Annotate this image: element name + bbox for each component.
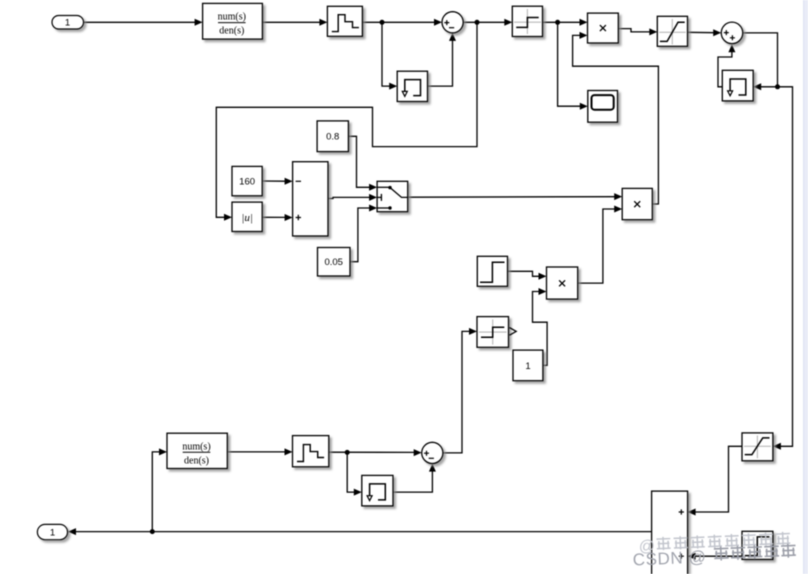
wire junction D to Saturation2 input [773, 87, 793, 450]
svg-text:160: 160 [239, 176, 255, 187]
svg-text:num(s): num(s) [218, 12, 246, 23]
wire TallSum output to Out1 [68, 528, 652, 535]
wire Constant 0.05 to Switch input3 [350, 205, 377, 262]
product Product2 [622, 188, 652, 219]
svg-text:num(s): num(s) [182, 441, 210, 452]
wire Switch to Product2 input1 [408, 193, 623, 200]
constant 1 [513, 350, 543, 381]
staircase block SC1 [327, 6, 362, 36]
wire Step2 to TallSum input2 [688, 553, 742, 560]
sum Sum3 [422, 442, 443, 463]
node junction F [345, 450, 350, 455]
constant 0.05 [318, 248, 351, 277]
wire DeadZone1 to Product1 [543, 19, 588, 26]
svg-text:den(s): den(s) [219, 26, 244, 37]
svg-text:den(s): den(s) [184, 455, 209, 466]
wire Product2 output up to Product1 input2 [573, 32, 659, 204]
wire junction F down to Memory3 [347, 452, 362, 495]
svg-text:0.8: 0.8 [326, 132, 339, 143]
wire Saturation2 to TallSum input1 [688, 446, 742, 515]
watermark juejin community (light) [638, 532, 790, 556]
wire Abs to SumRect plus [262, 214, 292, 221]
wire junction C down to Scope [558, 22, 588, 109]
wire Memory1 to Sum1 bottom [428, 33, 457, 86]
step source Step2 (mirrored) [742, 531, 773, 559]
right edge panel strip [803, 0, 808, 574]
svg-text:|u|: |u| [241, 212, 253, 224]
switch block Switch [377, 181, 408, 211]
sum TallSum (mirrored add) [652, 491, 688, 574]
watermark CSDN user (darker) [632, 543, 796, 569]
wire Saturation1 to Sum2 [688, 29, 722, 36]
wire Sum2 to Memory2 input [743, 33, 778, 90]
saturation block Saturation1 [657, 16, 687, 46]
transfer-function TF1 num(s)/den(s) [203, 3, 263, 39]
transfer-function TF2 num(s)/den(s) [167, 433, 227, 468]
wire Sum1 to DeadZone1 [463, 19, 512, 26]
wire TF1 to Staircase1 [262, 19, 327, 26]
svg-text:1: 1 [50, 528, 55, 539]
wire SumRect to Switch input2 [328, 194, 377, 201]
dead-zone block DeadZone1 [512, 6, 542, 36]
constant 0.8 [317, 121, 348, 152]
product Product1 [588, 13, 619, 43]
step source SignStep [477, 256, 507, 286]
constant 160 [232, 166, 262, 195]
wire Product3 to Product2 input2 [578, 206, 623, 284]
node junction D [775, 84, 780, 89]
wire Memory3 to Sum3 bottom [393, 464, 436, 493]
wire Sum3 to DeadZone2 [443, 328, 477, 453]
node junction B [475, 20, 480, 25]
wire Constant1 to Product3 input2 [533, 288, 548, 365]
wire SignStep to Product3 input1 [508, 271, 547, 280]
svg-text:1: 1 [65, 18, 70, 29]
wire TF2 to Staircase2 [227, 448, 292, 455]
svg-text:CSDN @: CSDN @ [632, 547, 706, 569]
wire Product1 to Saturation1 [618, 28, 657, 35]
sum Sum2 [721, 22, 743, 44]
wire Constant 160 to SumRect minus [262, 178, 292, 185]
wire junction E up to TF2 [152, 448, 167, 531]
node junction C [555, 20, 560, 25]
sum Sum1 [442, 12, 463, 33]
svg-text:0.05: 0.05 [324, 257, 343, 268]
node junction E [150, 529, 155, 534]
dead-zone block DeadZone2 [477, 317, 516, 348]
wire junction A down to Memory1 [382, 22, 397, 89]
wire Memory2 to Sum2 bottom [718, 44, 735, 87]
memory block Memory1 [397, 71, 427, 101]
svg-text:1: 1 [525, 361, 530, 372]
memory block Memory2 (mirrored) [722, 70, 753, 101]
wire Staircase1 to Sum1 [362, 19, 442, 26]
abs block |u| [232, 202, 262, 231]
outport Out1 [37, 524, 67, 539]
wire junction B feedback to Abs input [216, 22, 477, 221]
sum SumRect [293, 162, 328, 236]
product Product3 [547, 267, 578, 299]
scope block Scope [588, 91, 618, 123]
wire Constant 0.8 to Switch input1 [348, 136, 377, 191]
memory block Memory3 [362, 475, 393, 506]
saturation block Saturation2 (mirrored) [742, 433, 773, 461]
inport In1 [52, 16, 84, 30]
wire Staircase2 to Sum3 [329, 449, 422, 456]
node junction A [380, 20, 385, 25]
staircase block SC2 [293, 436, 329, 467]
wire In1 to TF1 [84, 19, 203, 26]
